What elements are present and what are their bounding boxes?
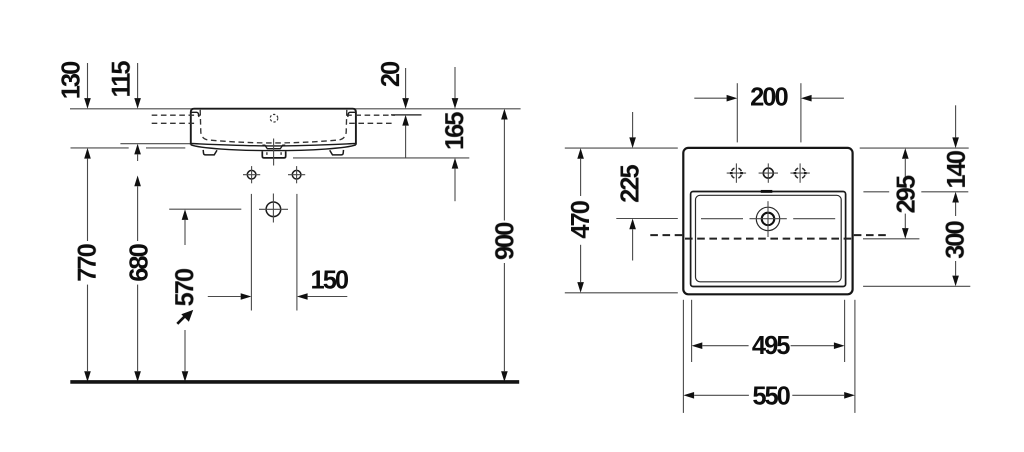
right top extension line — [860, 147, 969, 149]
drain fitting — [262, 151, 285, 158]
dashed level line inside — [685, 238, 852, 240]
svg-text:770: 770 — [74, 243, 102, 281]
dim 130 — [87, 63, 89, 98]
dim 200 — [694, 97, 726, 99]
wire 20-level short line — [391, 114, 422, 116]
140-level extension line — [863, 191, 889, 193]
basin body outline — [191, 109, 356, 145]
adjustable arrow symbol — [177, 316, 185, 324]
dim 20 — [405, 68, 407, 98]
svg-text:570: 570 — [171, 268, 199, 306]
fixing hole left — [247, 170, 256, 179]
bowl water line left — [701, 218, 743, 220]
dim 140 — [955, 105, 957, 137]
overflow tick — [761, 190, 773, 193]
middle rim rect — [691, 192, 846, 287]
dim 570 — [182, 209, 189, 220]
left bracket hook — [191, 112, 199, 117]
faucet hole right dashed — [795, 168, 806, 179]
300-level extension line — [863, 285, 970, 287]
left bracket slot dashed lower — [152, 122, 198, 124]
drain inner circle — [762, 213, 775, 226]
wire 130-level line B — [71, 147, 186, 149]
drain outer circle — [756, 207, 779, 230]
drain level extension line — [616, 218, 678, 220]
svg-text:20: 20 — [377, 61, 405, 87]
dim 550 — [683, 392, 694, 399]
wire 165-level line — [293, 157, 469, 159]
svg-text:115: 115 — [108, 61, 136, 98]
wire rim reference line — [70, 108, 521, 110]
dim 225 — [632, 112, 634, 137]
svg-text:225: 225 — [617, 165, 645, 203]
inner bowl dashed profile — [200, 110, 347, 143]
dim 150 extension lines — [250, 194, 252, 311]
svg-text:900: 900 — [491, 222, 519, 260]
right bracket slot dashed lower — [349, 122, 395, 124]
295-level extension line — [863, 238, 919, 240]
basin underside curve — [191, 145, 356, 151]
faucet hole left dashed — [731, 168, 742, 179]
dim 200 extension lines — [736, 83, 738, 142]
dim 680 — [134, 176, 141, 187]
svg-text:470: 470 — [567, 200, 595, 238]
svg-text:680: 680 — [126, 243, 154, 281]
dim 495 — [692, 342, 703, 349]
svg-text:130: 130 — [58, 61, 86, 99]
dim 470 — [577, 148, 584, 159]
svg-text:495: 495 — [752, 332, 790, 360]
outer rect — [683, 148, 852, 294]
faucet hole dashed circle — [270, 114, 278, 122]
inner bowl rect — [696, 195, 842, 281]
dim 495 extension lines — [691, 300, 693, 362]
faucet hole centre — [763, 168, 773, 178]
svg-text:165: 165 — [441, 112, 469, 150]
drain hole circle — [266, 202, 281, 217]
fixing hole right — [292, 170, 301, 179]
drain fitting inner ticks — [267, 152, 281, 155]
svg-text:295: 295 — [893, 175, 921, 213]
svg-text:550: 550 — [752, 382, 790, 410]
drain crosshair — [750, 218, 787, 220]
bowl water line right — [793, 218, 835, 220]
svg-text:200: 200 — [750, 84, 788, 112]
dim 550 extension lines — [682, 300, 684, 413]
wire 570-level line — [169, 208, 241, 210]
dim 115 — [137, 63, 139, 98]
left foot — [203, 150, 217, 155]
dim 150 — [208, 296, 241, 298]
right bracket slot dashed upper — [346, 114, 395, 116]
svg-text:140: 140 — [943, 150, 971, 188]
right bracket hook — [348, 112, 356, 117]
wire 115-level line A — [120, 143, 191, 145]
left bracket slot dashed upper — [152, 114, 201, 116]
floor line — [70, 380, 519, 384]
dim 900 — [501, 109, 508, 120]
dim 165 — [454, 67, 456, 98]
basin bottom edge — [191, 144, 356, 146]
right foot — [330, 150, 344, 155]
svg-text:150: 150 — [311, 266, 349, 294]
dashed level line left outside — [650, 234, 683, 236]
svg-text:300: 300 — [942, 221, 970, 259]
dim 770 — [87, 159, 89, 241]
basin centre line — [273, 139, 275, 166]
drain recess V — [262, 145, 285, 149]
dim 295 — [902, 148, 909, 159]
dashed level line right outside — [854, 234, 887, 236]
dim 470 extension lines — [565, 147, 678, 149]
